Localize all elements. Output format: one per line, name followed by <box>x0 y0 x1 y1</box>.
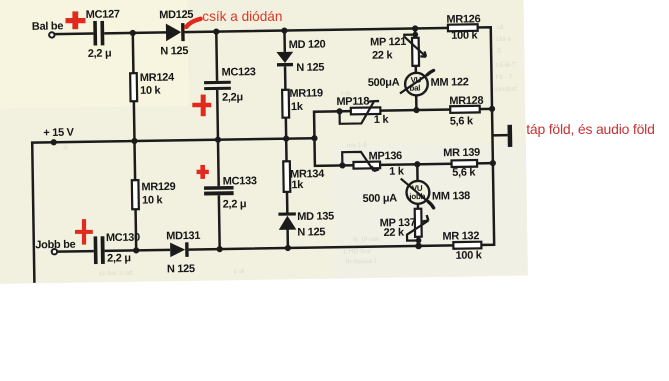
diode MD135 <box>278 212 295 215</box>
wire: MR124/MR129 column <box>133 33 136 250</box>
terminal Jobb be <box>52 249 57 254</box>
wiper arm MP121 <box>404 34 426 57</box>
meter MM138 needle <box>401 178 429 203</box>
ghost bleed-through text <box>60 24 520 278</box>
diode MD131 <box>170 242 185 257</box>
svg-text:ult: ult <box>497 24 504 31</box>
resistor MR124 <box>130 73 137 101</box>
svg-text:1k: 1k <box>291 101 304 113</box>
wire: ground stub <box>492 134 507 137</box>
svg-text:ma 1-5: ma 1-5 <box>347 142 368 149</box>
junction node MP136 left <box>339 162 345 168</box>
svg-text:MC130: MC130 <box>106 232 140 245</box>
svg-text:MR126: MR126 <box>446 13 480 26</box>
svg-text:N 125: N 125 <box>160 45 188 57</box>
resistor MR139 <box>452 160 478 167</box>
svg-text:MD131: MD131 <box>166 230 200 243</box>
resistor MR129 <box>132 180 139 209</box>
svg-text:MR128: MR128 <box>449 95 483 108</box>
svg-text:MR129: MR129 <box>141 181 175 194</box>
svg-text:táp föld, és audio föld: táp föld, és audio föld <box>526 121 655 137</box>
svg-text:MR 132: MR 132 <box>442 230 479 243</box>
meter MM122 body <box>405 73 428 96</box>
svg-text:MP136: MP136 <box>368 150 402 163</box>
wire: MD120/MR119/MR134/MD135 column <box>284 31 287 248</box>
junction node +15V feed <box>51 139 57 145</box>
junction node MP121 wiper tap <box>412 32 418 38</box>
resistor MR132 <box>453 242 481 249</box>
svg-text:MM 122: MM 122 <box>431 76 469 89</box>
svg-text:100 k: 100 k <box>455 249 482 261</box>
svg-text:MR 139: MR 139 <box>443 147 480 160</box>
svg-text:th-masse-t: th-masse-t <box>346 258 377 265</box>
potentiometer MP121 body <box>412 38 419 66</box>
wire: MP121 column from node A to VU meter <box>415 28 416 110</box>
wire: Jobb input terminal to MC130 <box>57 250 94 253</box>
junction node MP136 rail at bus <box>490 160 496 166</box>
svg-text:LM-a: LM-a <box>496 36 511 43</box>
wire: MC123/MC133 column <box>216 32 219 249</box>
capacitor MC133 plates <box>204 186 234 190</box>
annotation red cross at MC133 <box>197 165 209 179</box>
resistor MR134 <box>283 161 290 192</box>
junction node at MC123 top <box>213 28 219 34</box>
svg-text:100 k: 100 k <box>451 30 478 42</box>
svg-text:N 125: N 125 <box>297 226 325 238</box>
svg-text:bal: bal <box>409 84 420 93</box>
svg-text:1k: 1k <box>291 179 304 191</box>
svg-text:5,6 k: 5,6 k <box>450 115 474 127</box>
meter MM122 needle <box>400 73 430 93</box>
svg-text:2,2 μ: 2,2 μ <box>223 198 247 210</box>
junction node rail/middle vertical <box>311 135 317 141</box>
svg-text:f 6 - T: f 6 - T <box>496 74 513 81</box>
capacitor MC123 plates <box>204 81 231 85</box>
svg-text:N 125: N 125 <box>296 62 324 74</box>
svg-text:MC127: MC127 <box>86 8 120 21</box>
junction node at MD120 top <box>281 27 287 33</box>
svg-text:500μA: 500μA <box>368 77 400 89</box>
svg-text:sandast: sandast <box>494 86 517 93</box>
diode MD125 <box>166 23 181 41</box>
svg-text:t, HO test: t, HO test <box>343 248 371 255</box>
terminal Bal be <box>49 32 54 37</box>
meter MM138 body <box>406 181 429 204</box>
wire: bottom jobb rail from MD131 anode to MC130 <box>105 250 171 251</box>
junction node bottom/MD135 <box>285 245 291 251</box>
wiper arm MP118 <box>339 101 374 124</box>
wire: middle vertical joining MP118 branch, +15V rail and MP136 branch <box>314 109 493 166</box>
junction node A at MR124 top <box>130 30 136 36</box>
svg-text:500 μA: 500 μA <box>363 192 398 205</box>
resistor MR119 <box>282 90 289 118</box>
wire: +15V rail and left vertical line <box>32 138 316 283</box>
junction node MP118 rail at bus <box>489 106 495 112</box>
svg-text:-B: -B <box>62 145 69 152</box>
potentiometer MP137 body <box>415 209 422 237</box>
svg-text:sz-ltal, t-ratt: sz-ltal, t-ratt <box>99 270 133 278</box>
junction node bottom/MP137 <box>415 243 422 250</box>
junction node MP137 wiper tap <box>416 238 422 244</box>
svg-text:MC133: MC133 <box>223 175 257 188</box>
svg-text:1 k: 1 k <box>389 165 405 177</box>
junction node bottom/MR129 <box>133 247 139 253</box>
potentiometer MP136 body <box>353 162 380 169</box>
svg-text:t-ilk: t-ilk <box>341 90 352 97</box>
svg-text:2,2μ: 2,2μ <box>222 91 243 103</box>
svg-text:c-al: c-al <box>234 268 245 275</box>
junction node rail/MC123 <box>215 137 221 143</box>
wire: MC127 to MD125 anode <box>104 31 166 34</box>
svg-text:MR119: MR119 <box>289 87 323 100</box>
junction node at MP121 top <box>412 25 418 31</box>
svg-text:N 125: N 125 <box>167 263 195 275</box>
svg-text:lk, hf-san: lk, hf-san <box>353 236 380 243</box>
svg-text:MD 120: MD 120 <box>289 39 326 52</box>
junction node MP118 left <box>336 108 342 114</box>
junction node bottom/MC133 <box>217 246 223 252</box>
svg-text:10 k: 10 k <box>140 85 162 97</box>
wire: VU jobb column from MP136 branch to MP137 <box>417 164 418 246</box>
svg-text:10 k: 10 k <box>142 194 164 206</box>
ground bar <box>507 125 512 147</box>
svg-text:22 k: 22 k <box>383 227 405 239</box>
wire: node A top rail from MD125 cathode to ground bus corner, bus down, bottom rail back to MD131 cathode <box>185 27 495 249</box>
svg-text:Jobb be: Jobb be <box>35 239 75 252</box>
junction node rail/MR124 <box>131 138 137 144</box>
svg-text:+ 15 V: + 15 V <box>43 127 74 139</box>
svg-text:5,6 k: 5,6 k <box>452 167 476 179</box>
wiper arm MP137 <box>407 221 429 241</box>
svg-text:E: E <box>497 48 502 55</box>
wiper arm MP136 <box>342 152 374 172</box>
svg-text:MM 138: MM 138 <box>432 190 470 203</box>
wire: Bal input from terminal to MC127 <box>55 32 94 35</box>
resistor MR128 <box>450 106 480 113</box>
svg-text:MD 135: MD 135 <box>297 210 334 223</box>
annotation red cross at MC130 <box>75 219 93 245</box>
scan paper background <box>0 0 528 284</box>
junction node VU138 top <box>414 161 420 167</box>
annotation red cross at MC127 <box>66 11 86 29</box>
svg-text:22 k: 22 k <box>372 49 394 61</box>
svg-text:t-5-B-T: t-5-B-T <box>495 62 515 69</box>
svg-text:jobb: jobb <box>408 192 425 201</box>
diode MD120 <box>276 52 293 63</box>
junction node VU122 bottom <box>413 107 419 113</box>
svg-text:1 k: 1 k <box>374 114 390 126</box>
junction node rail/MR119 <box>283 135 289 141</box>
potentiometer MP118 body <box>351 107 381 114</box>
capacitor MC127 plates <box>93 21 97 46</box>
svg-text:MP 121: MP 121 <box>370 36 406 49</box>
svg-text:MC123: MC123 <box>222 66 256 79</box>
svg-text:2,2 μ: 2,2 μ <box>107 252 131 264</box>
svg-text:csík a diódán: csík a diódán <box>202 9 282 24</box>
svg-text:MR124: MR124 <box>140 72 175 85</box>
svg-text:2,2 μ: 2,2 μ <box>88 48 112 60</box>
svg-text:Bal be: Bal be <box>32 20 64 32</box>
annotation red arrow to diode stripe <box>186 19 200 27</box>
annotation red cross at MC123 <box>192 95 211 117</box>
svg-text:MD125: MD125 <box>159 9 193 22</box>
capacitor MC130 plates <box>94 236 98 264</box>
resistor MR126 <box>448 24 478 31</box>
